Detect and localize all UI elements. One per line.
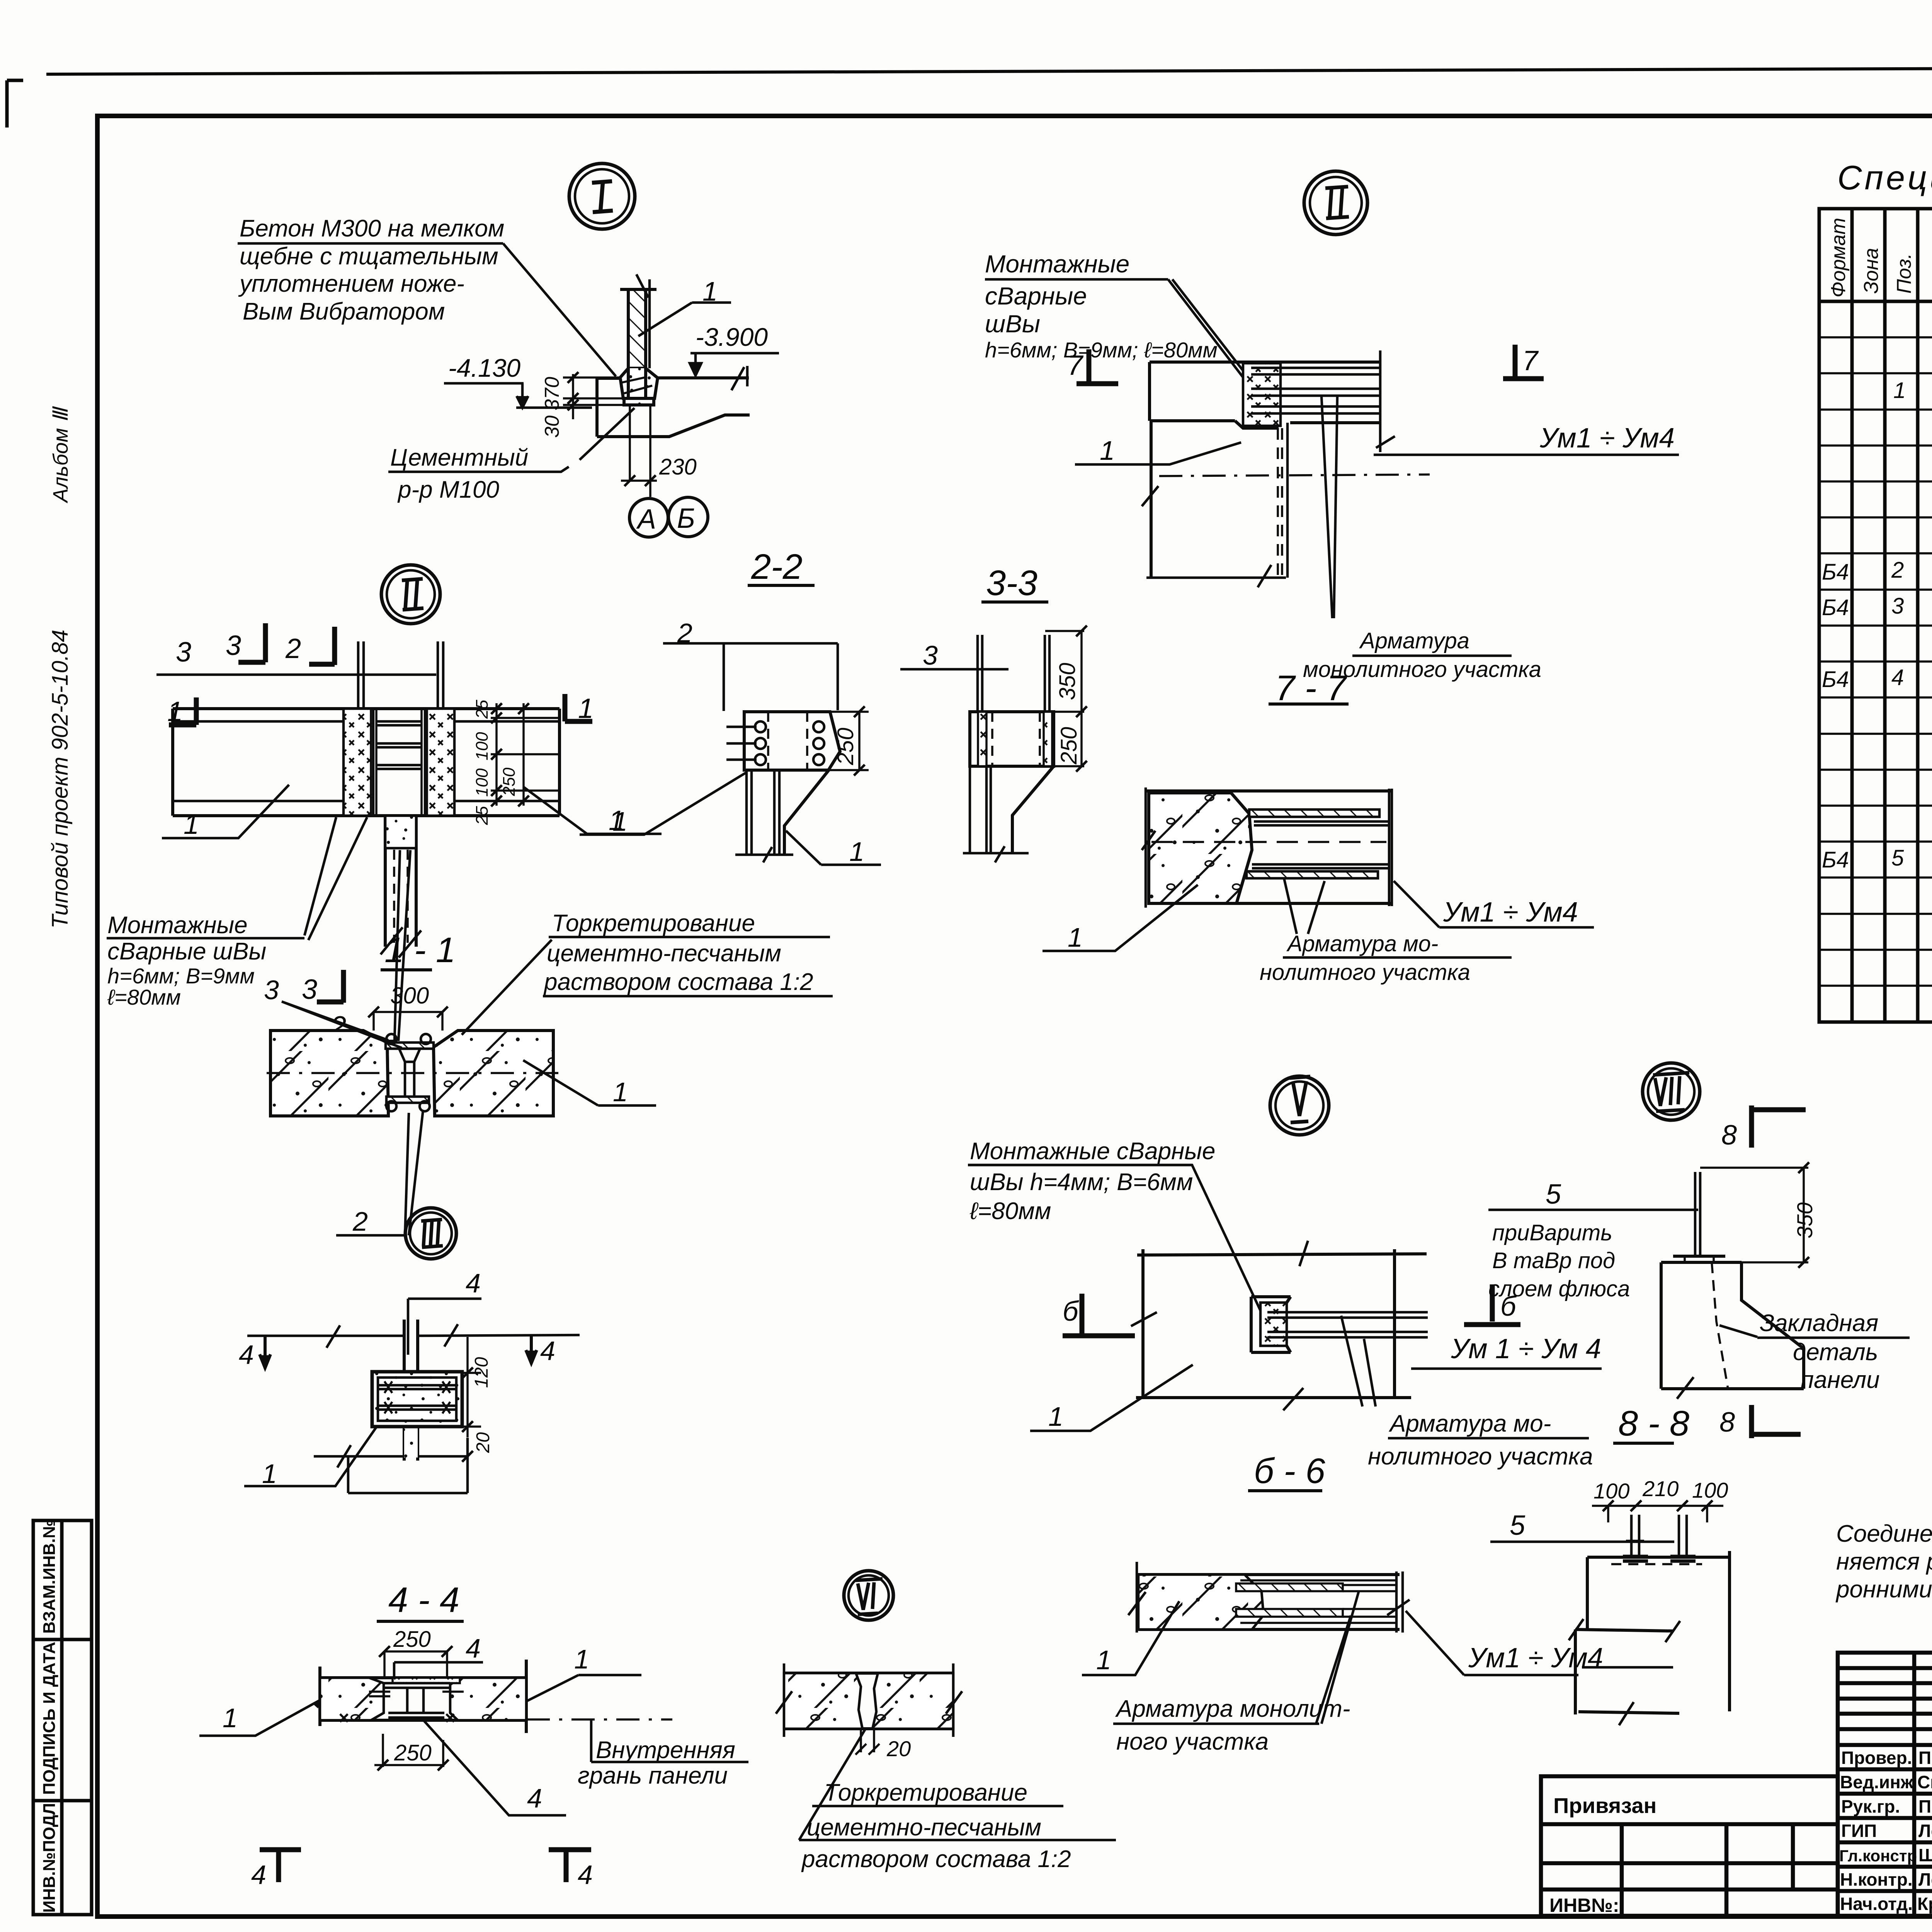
svg-text:Гл.констр: Гл.констр — [1839, 1847, 1917, 1865]
svg-text:3: 3 — [302, 974, 317, 1005]
svg-text:2-2: 2-2 — [751, 547, 803, 587]
svg-text:Арматура мо-: Арматура мо- — [1286, 931, 1438, 956]
svg-text:Ум1 ÷ Ум4: Ум1 ÷ Ум4 — [1443, 897, 1578, 928]
svg-text:Б4: Б4 — [1822, 847, 1849, 872]
svg-text:1: 1 — [1096, 1645, 1111, 1675]
svg-text:30: 30 — [541, 415, 563, 438]
svg-text:Письман: Письман — [1918, 1796, 1932, 1816]
svg-text:Смыслова: Смыслова — [1917, 1772, 1932, 1792]
svg-text:120: 120 — [471, 1357, 492, 1388]
svg-text:Б4: Б4 — [1822, 667, 1849, 692]
svg-text:ИНВ№:: ИНВ№: — [1549, 1895, 1619, 1916]
svg-text:4: 4 — [239, 1340, 254, 1370]
svg-text:7: 7 — [1067, 350, 1084, 381]
svg-text:Арматура мо-: Арматура мо- — [1388, 1410, 1551, 1437]
svg-text:ИНВ.№ПОДЛ: ИНВ.№ПОДЛ — [40, 1803, 59, 1913]
svg-text:210: 210 — [1642, 1476, 1679, 1501]
svg-text:слоем флюса: слоем флюса — [1488, 1276, 1630, 1301]
svg-text:4: 4 — [466, 1633, 481, 1663]
svg-text:нолитного участка: нолитного участка — [1368, 1443, 1593, 1470]
svg-text:Закладная: Закладная — [1760, 1310, 1878, 1337]
svg-text:8: 8 — [1721, 1120, 1737, 1151]
svg-text:350: 350 — [1793, 1202, 1817, 1238]
svg-text:2: 2 — [677, 618, 692, 648]
svg-text:Рук.гр.: Рук.гр. — [1841, 1796, 1900, 1816]
svg-text:3: 3 — [176, 637, 191, 668]
svg-text:1: 1 — [702, 276, 718, 306]
svg-text:1: 1 — [262, 1459, 277, 1489]
svg-text:ℓ=80мм: ℓ=80мм — [107, 985, 181, 1009]
svg-text:Б: Б — [677, 503, 695, 534]
svg-text:раствором состава 1:2: раствором состава 1:2 — [543, 969, 813, 995]
svg-text:8: 8 — [1719, 1407, 1735, 1438]
svg-text:2: 2 — [285, 633, 301, 664]
svg-text:3: 3 — [264, 975, 279, 1005]
svg-text:1: 1 — [574, 1644, 589, 1674]
svg-text:1 - 1: 1 - 1 — [384, 930, 456, 970]
svg-text:Ум 1 ÷ Ум 4: Ум 1 ÷ Ум 4 — [1451, 1333, 1601, 1364]
svg-text:350: 350 — [1055, 663, 1080, 700]
svg-text:сВарные шВы: сВарные шВы — [107, 938, 266, 965]
svg-text:ронними швами.: ронними швами. — [1835, 1576, 1932, 1603]
svg-text:Вым Вибратором: Вым Вибратором — [243, 298, 445, 325]
svg-text:Бетон М300 на мелком: Бетон М300 на мелком — [240, 215, 504, 242]
svg-text:25: 25 — [473, 806, 492, 825]
svg-text:Н.контр.: Н.контр. — [1840, 1869, 1913, 1889]
svg-text:5: 5 — [1510, 1510, 1526, 1541]
svg-text:ℓ=80мм: ℓ=80мм — [969, 1198, 1051, 1225]
svg-text:Спецификация элементов на один: Спецификация элементов на один узел — [1837, 158, 1932, 197]
svg-text:Поз.: Поз. — [1893, 253, 1915, 294]
svg-text:20: 20 — [886, 1736, 911, 1761]
svg-text:Письман: Письман — [1918, 1748, 1932, 1768]
svg-text:1: 1 — [1068, 922, 1083, 952]
svg-text:1: 1 — [609, 805, 624, 836]
svg-text:7: 7 — [1522, 345, 1539, 376]
svg-text:Альбом Ⅲ: Альбом Ⅲ — [49, 406, 72, 503]
svg-text:Нач.отд.: Нач.отд. — [1840, 1894, 1913, 1914]
svg-text:4: 4 — [251, 1860, 266, 1890]
svg-text:3-3: 3-3 — [986, 563, 1037, 603]
svg-text:В таВр под: В таВр под — [1492, 1248, 1615, 1273]
svg-text:Цементный: Цементный — [390, 444, 528, 471]
svg-text:100: 100 — [1692, 1478, 1728, 1502]
svg-text:25: 25 — [473, 700, 492, 719]
svg-text:5: 5 — [1891, 845, 1904, 871]
svg-text:1: 1 — [1893, 378, 1906, 403]
svg-text:нолитного участка: нолитного участка — [1260, 960, 1470, 985]
svg-text:Ум1 ÷ Ум4: Ум1 ÷ Ум4 — [1539, 423, 1675, 454]
svg-text:1: 1 — [1100, 435, 1115, 466]
svg-text:3: 3 — [226, 630, 241, 661]
svg-text:1: 1 — [613, 1077, 628, 1107]
svg-text:уплотнением ноже-: уплотнением ноже- — [238, 270, 464, 297]
svg-text:Провер.: Провер. — [1841, 1748, 1912, 1768]
svg-text:Соединение стержней арматуры: Соединение стержней арматуры между собой… — [1836, 1520, 1932, 1547]
svg-text:100: 100 — [1594, 1479, 1629, 1503]
svg-text:1: 1 — [849, 837, 864, 867]
svg-text:Левина: Левина — [1918, 1821, 1932, 1841]
svg-text:панели: панели — [1801, 1367, 1880, 1393]
svg-text:грань панели: грань панели — [578, 1762, 728, 1789]
svg-text:Внутренняя: Внутренняя — [596, 1737, 735, 1764]
svg-text:4: 4 — [578, 1860, 593, 1890]
svg-text:4: 4 — [466, 1268, 481, 1298]
svg-text:4: 4 — [527, 1783, 542, 1813]
svg-text:Торкретирование: Торкретирование — [824, 1779, 1027, 1806]
svg-text:250: 250 — [500, 767, 519, 796]
svg-text:б: б — [1063, 1296, 1079, 1327]
svg-text:сВарные: сВарные — [985, 282, 1087, 310]
svg-text:1: 1 — [184, 809, 199, 840]
svg-text:деталь: деталь — [1793, 1339, 1878, 1366]
svg-text:Монтажные: Монтажные — [985, 250, 1129, 278]
svg-text:Монтажные сВарные: Монтажные сВарные — [970, 1138, 1215, 1165]
svg-text:4 - 4: 4 - 4 — [388, 1580, 459, 1620]
svg-text:1: 1 — [1048, 1401, 1063, 1432]
svg-text:ВЗАМ.ИНВ.№: ВЗАМ.ИНВ.№ — [40, 1519, 59, 1634]
svg-text:250: 250 — [833, 728, 858, 765]
svg-text:ГИП: ГИП — [1841, 1821, 1877, 1841]
svg-text:1: 1 — [167, 696, 183, 727]
svg-text:Привязан: Привязан — [1553, 1793, 1656, 1818]
svg-text:б - 6: б - 6 — [1254, 1451, 1326, 1491]
svg-text:шВы h=4мм; В=6мм: шВы h=4мм; В=6мм — [970, 1169, 1193, 1196]
svg-text:250: 250 — [1056, 727, 1082, 765]
svg-text:Арматура монолит-: Арматура монолит- — [1115, 1696, 1350, 1722]
svg-text:2: 2 — [352, 1206, 368, 1236]
svg-text:2: 2 — [1891, 558, 1904, 583]
svg-text:100: 100 — [473, 768, 492, 797]
svg-text:300: 300 — [390, 983, 429, 1009]
svg-text:20: 20 — [473, 1432, 493, 1453]
svg-text:Б4: Б4 — [1822, 595, 1849, 620]
svg-text:-4.130: -4.130 — [448, 354, 520, 382]
svg-text:-3.900: -3.900 — [696, 323, 768, 351]
svg-text:ПОДПИСЬ И ДАТА: ПОДПИСЬ И ДАТА — [40, 1642, 59, 1795]
svg-text:шВы: шВы — [985, 310, 1040, 338]
svg-text:цементно-песчаным: цементно-песчаным — [807, 1814, 1041, 1841]
svg-text:4: 4 — [1891, 665, 1904, 690]
svg-text:А: А — [636, 504, 656, 535]
svg-text:7 - 7: 7 - 7 — [1275, 668, 1347, 708]
svg-text:Б4: Б4 — [1822, 560, 1849, 585]
svg-text:Зона: Зона — [1860, 248, 1883, 294]
svg-text:Вед.инж: Вед.инж — [1840, 1772, 1913, 1792]
svg-text:Монтажные: Монтажные — [107, 912, 248, 939]
svg-text:Торкретирование: Торкретирование — [552, 910, 755, 937]
svg-text:Красавин: Красавин — [1917, 1894, 1932, 1914]
svg-text:Арматура: Арматура — [1359, 628, 1469, 653]
svg-text:1: 1 — [223, 1703, 238, 1733]
svg-text:Типовой проект 902-5-10.84: Типовой проект 902-5-10.84 — [48, 629, 73, 929]
svg-text:370: 370 — [541, 377, 563, 410]
svg-text:цементно-песчаным: цементно-песчаным — [547, 940, 781, 967]
svg-text:h=6мм; В=9мм; ℓ=80мм: h=6мм; В=9мм; ℓ=80мм — [985, 338, 1218, 362]
svg-text:1: 1 — [578, 693, 594, 724]
svg-text:Левина: Левина — [1918, 1869, 1932, 1889]
svg-text:230: 230 — [659, 454, 697, 480]
svg-text:раствором состава 1:2: раствором состава 1:2 — [801, 1846, 1071, 1872]
svg-text:250: 250 — [393, 1627, 431, 1652]
svg-text:h=6мм; В=9мм: h=6мм; В=9мм — [107, 964, 255, 988]
svg-text:ного участка: ного участка — [1116, 1728, 1269, 1755]
svg-text:3: 3 — [1891, 594, 1904, 619]
svg-text:5: 5 — [1546, 1179, 1561, 1210]
svg-text:Ум1 ÷ Ум4: Ум1 ÷ Ум4 — [1468, 1643, 1603, 1673]
svg-text:щебне с тщательным: щебне с тщательным — [240, 243, 498, 270]
svg-text:4: 4 — [540, 1336, 555, 1366]
svg-text:3: 3 — [923, 640, 938, 670]
svg-text:Шапиро: Шапиро — [1918, 1845, 1932, 1865]
svg-text:100: 100 — [473, 732, 492, 760]
svg-text:р-р М100: р-р М100 — [397, 476, 499, 503]
svg-text:250: 250 — [394, 1740, 432, 1765]
svg-text:8 - 8: 8 - 8 — [1618, 1404, 1689, 1443]
svg-text:няется ручной дуговой сварк: няется ручной дуговой сваркой Внахлестку… — [1836, 1548, 1932, 1575]
svg-text:Формат: Формат — [1827, 218, 1850, 298]
svg-text:приВарить: приВарить — [1492, 1220, 1612, 1245]
